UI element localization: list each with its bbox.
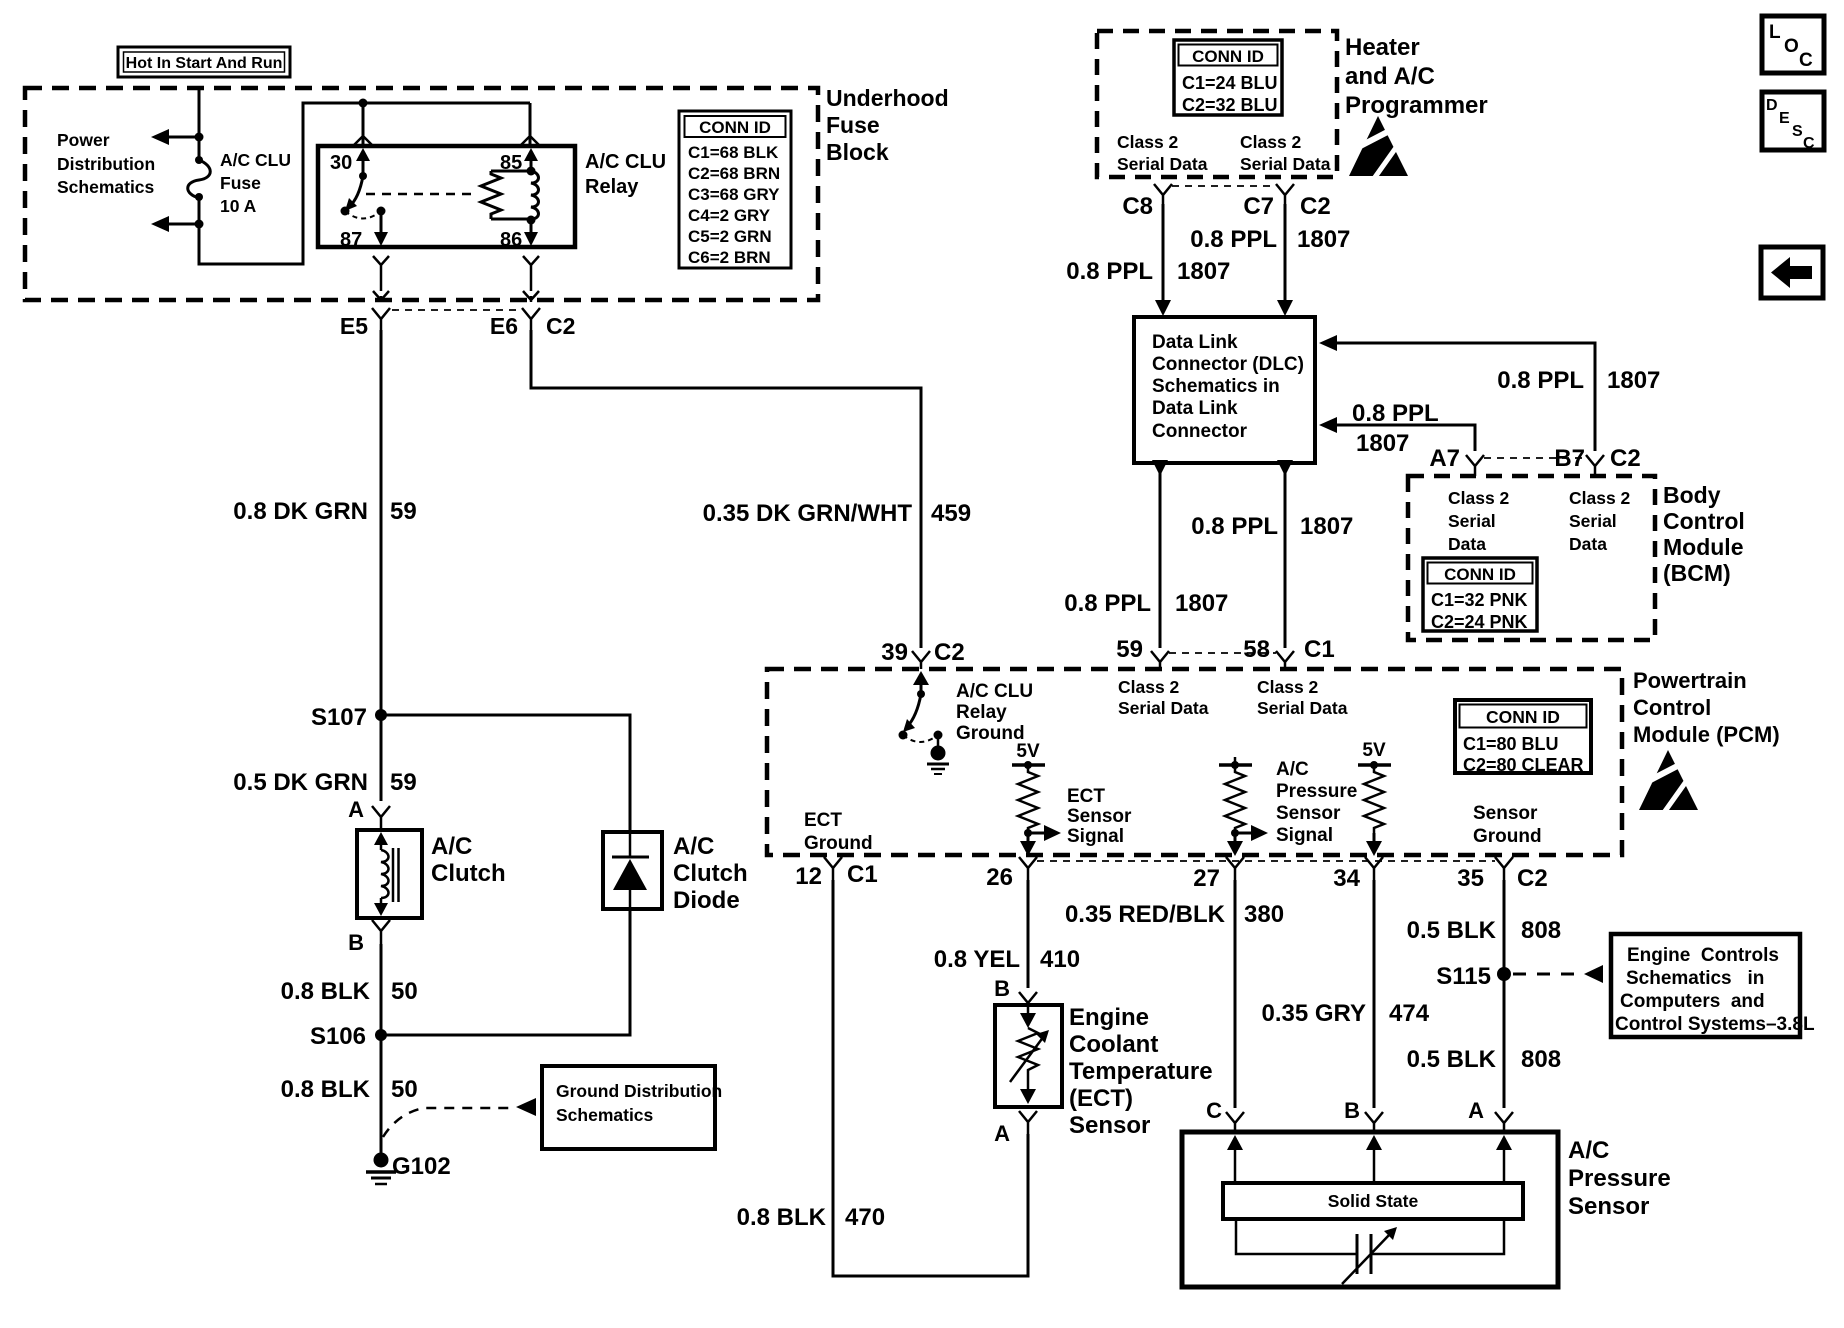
svg-text:A: A	[1468, 1098, 1484, 1123]
label: Heater and A/C Programmer	[1345, 34, 1488, 119]
svg-text:S115: S115	[1436, 963, 1491, 990]
svg-text:380: 380	[1244, 901, 1284, 928]
connector fork pin 39 C2 at PCM	[881, 639, 964, 669]
svg-text:Sensor: Sensor	[1067, 806, 1132, 827]
label: A/C Pressure Sensor Signal	[1276, 759, 1357, 846]
svg-text:C2=80 CLEAR: C2=80 CLEAR	[1463, 755, 1584, 775]
svg-text:Class 2: Class 2	[1569, 488, 1631, 508]
svg-text:Class 2: Class 2	[1257, 677, 1319, 697]
label: Hot In Start And Run	[118, 47, 290, 77]
label: ECT Sensor Signal	[1067, 786, 1132, 847]
wire: drop to relay pin 30	[362, 103, 365, 146]
connector A fork at pressure sensor	[1468, 1098, 1513, 1132]
wire: pin 85 entry arrow	[524, 148, 538, 171]
svg-text:59: 59	[390, 769, 417, 796]
wire: 0.5 BLK 808 S115 to pressure sensor A	[1407, 974, 1561, 1108]
label: Power Distribution Schematics	[57, 130, 155, 197]
svg-text:A/C: A/C	[1276, 759, 1309, 780]
svg-text:Connector (DLC): Connector (DLC)	[1152, 354, 1304, 375]
svg-text:470: 470	[845, 1204, 885, 1231]
wire: pressure signal exits PCM pin 27	[1227, 833, 1243, 856]
svg-text:50: 50	[391, 978, 418, 1005]
wire: pin 87 exit	[374, 211, 388, 246]
ECT sensor box	[995, 1005, 1062, 1107]
svg-text:Schematics in: Schematics in	[1626, 968, 1764, 989]
svg-text:Serial Data: Serial Data	[1257, 698, 1348, 718]
wire: 0.8 BLK 470 ECT sensor to PCM pin 12	[737, 880, 1028, 1276]
DESC corner icon	[1762, 92, 1824, 152]
dashed connector line 59-58	[1169, 652, 1276, 654]
node: fuse bottom junction	[195, 220, 204, 229]
svg-text:Data: Data	[1448, 534, 1486, 554]
svg-text:0.8 DK GRN: 0.8 DK GRN	[233, 498, 368, 525]
label: Class 2 Serial Data (PCM left)	[1118, 677, 1209, 718]
off-page arrow to Power Distribution Schematics (lower)	[151, 216, 199, 232]
Powertrain Control Module dashed box	[767, 669, 1622, 855]
label: A/C CLU Relay Ground	[956, 681, 1033, 744]
svg-text:CONN ID: CONN ID	[1192, 47, 1264, 66]
CONN ID table (programmer)	[1174, 40, 1282, 115]
svg-text:Ground Distribution: Ground Distribution	[556, 1081, 722, 1101]
svg-text:59: 59	[1116, 636, 1143, 663]
dashed reference wire to Ground Distribution Schematics	[383, 1098, 536, 1137]
svg-text:C2=68 BRN: C2=68 BRN	[688, 164, 780, 183]
CONN ID table (BCM)	[1423, 558, 1537, 632]
svg-text:808: 808	[1521, 1046, 1561, 1073]
svg-text:(ECT): (ECT)	[1069, 1085, 1133, 1112]
svg-text:Block: Block	[826, 139, 889, 165]
svg-text:5V: 5V	[1016, 741, 1040, 762]
svg-text:S: S	[1792, 123, 1803, 140]
sensor pin A entry arrow	[1496, 1135, 1512, 1183]
ESD sensitivity symbol (PCM)	[1635, 750, 1698, 814]
svg-text:C5=2 GRN: C5=2 GRN	[688, 227, 772, 246]
A/C Pressure Sensor box	[1182, 1132, 1558, 1287]
label: A/C CLU Fuse 10 A	[220, 150, 291, 216]
wire: 0.35 DK GRN/WHT 459 from E6 to PCM pin 39	[531, 330, 971, 648]
svg-text:ECT: ECT	[804, 810, 842, 831]
svg-text:Coolant: Coolant	[1069, 1031, 1158, 1058]
svg-text:CONN ID: CONN ID	[1444, 565, 1516, 584]
svg-text:10 A: 10 A	[220, 196, 257, 216]
svg-text:0.8 BLK: 0.8 BLK	[737, 1204, 827, 1231]
svg-text:Clutch: Clutch	[431, 860, 506, 887]
svg-text:58: 58	[1243, 636, 1270, 663]
label: A/C Clutch Diode	[673, 833, 748, 914]
pin 85 label	[500, 152, 522, 174]
svg-text:1807: 1807	[1607, 367, 1660, 394]
svg-text:Control Systems–3.8L: Control Systems–3.8L	[1615, 1014, 1815, 1035]
svg-text:A: A	[994, 1121, 1010, 1146]
wire: relay 87 fork down to connector E5	[373, 256, 389, 302]
svg-text:Data Link: Data Link	[1152, 398, 1238, 419]
svg-text:C1=32 PNK: C1=32 PNK	[1431, 590, 1528, 610]
wire: 0.8 PPL 1807 DLC to BCM A7	[1319, 400, 1475, 457]
svg-text:Serial: Serial	[1569, 511, 1617, 531]
svg-text:C2: C2	[546, 313, 575, 339]
svg-text:0.35 DK GRN/WHT: 0.35 DK GRN/WHT	[703, 500, 913, 527]
svg-text:Pressure: Pressure	[1276, 781, 1357, 802]
CONN ID table (underhood fuse block)	[679, 111, 791, 268]
svg-text:and A/C: and A/C	[1345, 63, 1435, 90]
svg-text:1807: 1807	[1300, 513, 1353, 540]
wire: drop to relay pin 85	[529, 103, 532, 146]
label: Class 2 Serial Data (PCM right)	[1257, 677, 1348, 718]
connector fork pin 35 C2	[1457, 857, 1547, 892]
svg-text:0.8 BLK: 0.8 BLK	[281, 1076, 371, 1103]
svg-text:C2: C2	[1610, 445, 1641, 472]
svg-text:C: C	[1799, 50, 1813, 71]
wire: 0.8 PPL 1807 DLC to PCM pin 58	[1191, 460, 1353, 648]
svg-text:C2: C2	[1300, 193, 1331, 220]
ground G102	[366, 1153, 451, 1185]
svg-text:C2: C2	[934, 639, 965, 666]
node + arrow: ECT Sensor Signal	[1024, 825, 1061, 841]
svg-text:Sensor: Sensor	[1568, 1193, 1649, 1220]
label: ECT Ground	[804, 810, 873, 854]
connector fork pin 59 at PCM	[1116, 636, 1169, 669]
dashed throw arc to ground contact	[903, 735, 938, 742]
svg-text:Relay: Relay	[585, 176, 639, 198]
svg-text:G102: G102	[392, 1153, 451, 1180]
svg-text:39: 39	[881, 639, 908, 666]
connector fork pin 26	[986, 857, 1037, 891]
svg-text:1807: 1807	[1297, 226, 1350, 253]
svg-text:Solid State: Solid State	[1328, 1191, 1419, 1211]
svg-text:Power: Power	[57, 130, 110, 150]
svg-text:S106: S106	[310, 1023, 366, 1050]
underhood fuse block dashed boundary	[25, 85, 949, 300]
pin 86 label	[500, 229, 522, 251]
svg-text:E6: E6	[490, 313, 518, 339]
5V supply for ECT sensor	[1012, 741, 1045, 769]
svg-text:Clutch: Clutch	[673, 860, 748, 887]
svg-text:Engine Controls: Engine Controls	[1627, 945, 1779, 966]
svg-text:50: 50	[391, 1076, 418, 1103]
connector A fork below ECT sensor	[994, 1111, 1037, 1146]
wire: S106 branch to clutch diode	[381, 909, 630, 1035]
connector C fork at pressure sensor	[1206, 1098, 1244, 1132]
svg-text:A7: A7	[1429, 445, 1460, 472]
label: Powertrain Control Module (PCM)	[1633, 668, 1780, 747]
svg-text:Fuse: Fuse	[220, 173, 261, 193]
svg-text:Class 2: Class 2	[1118, 677, 1180, 697]
A/C clutch coil symbol	[374, 832, 399, 916]
svg-text:0.8 PPL: 0.8 PPL	[1497, 367, 1584, 394]
svg-text:1807: 1807	[1356, 430, 1409, 457]
connector B7 C2 fork at BCM	[1554, 445, 1640, 476]
svg-text:(BCM): (BCM)	[1663, 560, 1731, 586]
svg-text:A/C: A/C	[431, 833, 472, 860]
svg-text:0.8 BLK: 0.8 BLK	[281, 978, 371, 1005]
wire: 0.8 PPL 1807 C8 to DLC	[1066, 204, 1230, 316]
svg-text:Computers and: Computers and	[1620, 991, 1765, 1012]
wire: 0.8 YEL 410 pin 26 to ECT sensor	[934, 880, 1080, 988]
connector B fork below clutch	[348, 920, 390, 955]
svg-text:0.8 PPL: 0.8 PPL	[1064, 590, 1151, 617]
svg-text:474: 474	[1389, 1000, 1430, 1027]
label: A/C CLU Relay	[585, 151, 666, 198]
svg-text:0.8 PPL: 0.8 PPL	[1190, 226, 1277, 253]
variable capacitor element	[1236, 1219, 1504, 1284]
node S107	[311, 704, 387, 731]
Heater and A/C Programmer dashed box	[1097, 31, 1337, 177]
svg-text:86: 86	[500, 229, 522, 251]
svg-text:A/C CLU: A/C CLU	[585, 151, 666, 173]
svg-text:35: 35	[1457, 865, 1484, 892]
sensor pin B entry arrow	[1366, 1135, 1382, 1183]
wire: 0.35 RED/BLK 380 pin 27 to pressure sensor C	[1065, 880, 1284, 1108]
svg-text:Pressure: Pressure	[1568, 1165, 1671, 1192]
svg-text:L: L	[1769, 22, 1781, 43]
connector E5 (C2) fork	[340, 308, 390, 339]
svg-text:D: D	[1766, 97, 1778, 114]
svg-text:ECT: ECT	[1067, 786, 1105, 807]
svg-text:Control: Control	[1633, 695, 1711, 720]
svg-text:87: 87	[340, 229, 362, 251]
pin 87 label	[340, 229, 362, 251]
svg-text:34: 34	[1333, 865, 1360, 892]
connector A fork at A/C clutch	[348, 797, 390, 830]
svg-text:0.8 YEL: 0.8 YEL	[934, 946, 1020, 973]
svg-text:Data Link: Data Link	[1152, 332, 1238, 353]
node S106	[310, 1023, 387, 1050]
wire: 0.5 DK GRN 59 from S107 to clutch	[233, 715, 416, 801]
svg-text:Serial Data: Serial Data	[1117, 154, 1208, 174]
svg-text:C1: C1	[847, 861, 878, 888]
label: A/C Clutch	[431, 833, 506, 887]
svg-text:C7: C7	[1243, 193, 1274, 220]
svg-text:Control: Control	[1663, 508, 1745, 534]
svg-text:Schematics: Schematics	[556, 1105, 654, 1125]
svg-text:0.5 DK GRN: 0.5 DK GRN	[233, 769, 368, 796]
dashed reference wire to Engine Controls Schematics	[1513, 965, 1603, 983]
svg-text:Sensor: Sensor	[1069, 1112, 1150, 1139]
connector B fork at ECT sensor	[994, 976, 1037, 1005]
node: fuse top junction	[195, 133, 204, 142]
svg-text:C: C	[1803, 135, 1815, 152]
svg-text:Ground: Ground	[804, 833, 873, 854]
svg-text:Heater: Heater	[1345, 34, 1420, 61]
dashed connector line E5-E6	[392, 309, 520, 311]
svg-text:Diode: Diode	[673, 887, 740, 914]
svg-text:0.8 PPL: 0.8 PPL	[1352, 400, 1439, 427]
relay coil top/bottom bars	[491, 167, 536, 225]
svg-text:Fuse: Fuse	[826, 112, 880, 138]
svg-text:C2=32 BLU: C2=32 BLU	[1182, 95, 1278, 115]
label: A/C Pressure Sensor	[1568, 1137, 1671, 1220]
svg-text:Ground: Ground	[956, 723, 1025, 744]
svg-text:Sensor: Sensor	[1473, 803, 1538, 824]
svg-text:A/C: A/C	[673, 833, 714, 860]
svg-text:27: 27	[1193, 865, 1220, 892]
svg-text:Class 2: Class 2	[1448, 488, 1510, 508]
resistor: A/C pressure signal pull-up with 5V bar	[1219, 757, 1252, 833]
dashed connector line A7-B7	[1484, 457, 1586, 459]
wire: 0.8 DK GRN 59 from E5 to S107	[233, 330, 416, 715]
svg-text:59: 59	[390, 498, 417, 525]
dashed connector line pins 26-35 (C2)	[1037, 860, 1495, 862]
svg-text:0.35 RED/BLK: 0.35 RED/BLK	[1065, 901, 1226, 928]
wire: 0.8 PPL 1807 C7 to DLC	[1190, 204, 1350, 316]
svg-text:0.35 GRY: 0.35 GRY	[1262, 1000, 1367, 1027]
svg-text:C1=80 BLU: C1=80 BLU	[1463, 734, 1559, 754]
svg-text:Ground: Ground	[1473, 826, 1542, 847]
PCM internal driver switch for A/C CLU relay ground	[899, 671, 930, 740]
svg-text:C4=2 GRY: C4=2 GRY	[688, 206, 771, 225]
label: Class 2 Serial Data (programmer right)	[1240, 132, 1331, 174]
svg-text:459: 459	[931, 500, 971, 527]
relay contact dashed throw arc	[345, 211, 381, 219]
connector E6 (C2) fork	[490, 308, 576, 339]
node: junction feeding pin 30	[359, 99, 368, 108]
connector B fork at pressure sensor	[1344, 1098, 1383, 1132]
svg-text:Class 2: Class 2	[1240, 132, 1302, 152]
svg-text:B: B	[994, 976, 1010, 1001]
svg-text:Data: Data	[1569, 534, 1607, 554]
A/C clutch box	[357, 830, 422, 918]
connector chevron above pin 30	[354, 136, 372, 145]
svg-text:Module: Module	[1663, 534, 1744, 560]
label: Class 2 Serial Data (BCM right)	[1569, 488, 1631, 554]
svg-text:C1=24 BLU: C1=24 BLU	[1182, 73, 1278, 93]
svg-text:0.8 PPL: 0.8 PPL	[1191, 513, 1278, 540]
svg-text:0.5 BLK: 0.5 BLK	[1407, 917, 1497, 944]
Ground Distribution Schematics box	[542, 1066, 722, 1149]
connector C8 fork	[1122, 184, 1172, 220]
svg-text:E: E	[1779, 110, 1790, 127]
svg-text:0.5 BLK: 0.5 BLK	[1407, 1046, 1497, 1073]
svg-text:Powertrain: Powertrain	[1633, 668, 1747, 693]
svg-text:Schematics in: Schematics in	[1152, 376, 1280, 397]
svg-text:Signal: Signal	[1067, 826, 1124, 847]
svg-text:Schematics: Schematics	[57, 177, 155, 197]
svg-text:Serial Data: Serial Data	[1118, 698, 1209, 718]
node S115	[1436, 963, 1511, 990]
svg-text:Module (PCM): Module (PCM)	[1633, 722, 1780, 747]
relay K1 box: A/C CLU Relay	[318, 146, 575, 247]
wire: ECT signal exits PCM pin 26	[1020, 833, 1036, 856]
wire: 0.8 BLK 50 clutch to S106	[281, 944, 418, 1035]
wire: feed from hot bus into fuse	[198, 88, 201, 137]
node: pin 87 contact	[377, 207, 386, 216]
relay coil: winding element	[531, 171, 539, 219]
svg-text:B: B	[1344, 1098, 1360, 1123]
svg-text:C6=2 BRN: C6=2 BRN	[688, 248, 771, 267]
label: Class 2 Serial Data (programmer left)	[1117, 132, 1208, 174]
label: Engine Coolant Temperature (ECT) Sensor	[1069, 1004, 1213, 1139]
svg-text:Sensor: Sensor	[1276, 803, 1341, 824]
5V supply reference	[1358, 740, 1391, 769]
off-page arrow to Power Distribution Schematics (upper)	[151, 129, 199, 145]
relay coil: resistor element	[481, 171, 501, 219]
wire: pin 86 exit	[524, 220, 538, 246]
node + arrow: A/C Pressure Sensor Signal	[1231, 825, 1268, 841]
svg-text:Serial Data: Serial Data	[1240, 154, 1331, 174]
label: Sensor Ground	[1473, 803, 1542, 847]
svg-text:Hot In Start And Run: Hot In Start And Run	[126, 55, 283, 72]
svg-text:Distribution: Distribution	[57, 154, 155, 174]
connector fork pin 58 C1 at PCM	[1243, 636, 1334, 669]
wire: 0.35 GRY 474 pin 34 to pressure sensor B	[1262, 880, 1430, 1108]
dashed connector line C8-C7	[1172, 185, 1276, 187]
pin 30 label	[330, 152, 352, 174]
wire: 0.8 BLK 50 S106 to G102	[281, 1035, 418, 1155]
A/C clutch diode box	[603, 832, 662, 909]
connector fork pin 34	[1333, 857, 1383, 892]
svg-text:A/C CLU: A/C CLU	[220, 150, 291, 170]
svg-text:CONN ID: CONN ID	[1486, 707, 1560, 727]
svg-text:1807: 1807	[1175, 590, 1228, 617]
label: Class 2 Serial Data (BCM left)	[1448, 488, 1510, 554]
svg-text:C: C	[1206, 1098, 1222, 1123]
LOC corner icon	[1762, 16, 1824, 73]
svg-text:Relay: Relay	[956, 702, 1007, 723]
Body Control Module dashed box	[1408, 476, 1655, 640]
svg-text:1807: 1807	[1177, 258, 1230, 285]
svg-text:5V: 5V	[1362, 740, 1386, 761]
connector fork pin 12 C1	[795, 857, 877, 890]
svg-text:O: O	[1784, 36, 1799, 57]
svg-text:30: 30	[330, 152, 352, 174]
svg-text:0.8 PPL: 0.8 PPL	[1066, 258, 1153, 285]
svg-text:410: 410	[1040, 946, 1080, 973]
wire: fuse output routed to relay pins 30 and 85	[199, 103, 530, 264]
svg-text:C2: C2	[1517, 865, 1548, 892]
wire: 5V reference exits PCM pin 34	[1366, 833, 1382, 856]
svg-text:A/C CLU: A/C CLU	[956, 681, 1033, 702]
relay mechanical link (dashed)	[366, 193, 474, 196]
svg-text:B: B	[348, 930, 364, 955]
connector chevron above pin 85	[521, 136, 539, 145]
wire: 0.8 PPL 1807 DLC to BCM B7	[1319, 335, 1660, 451]
connector fork pin 27	[1193, 857, 1244, 892]
Data Link Connector reference box	[1134, 317, 1315, 463]
svg-text:Underhood: Underhood	[826, 85, 949, 111]
Solid State block	[1223, 1183, 1523, 1219]
sensor pin C entry arrow	[1227, 1135, 1243, 1183]
svg-text:Connector: Connector	[1152, 421, 1248, 442]
svg-text:808: 808	[1521, 917, 1561, 944]
svg-text:CONN ID: CONN ID	[699, 118, 771, 137]
ECT thermistor symbol	[1010, 1005, 1049, 1104]
svg-text:Engine: Engine	[1069, 1004, 1149, 1031]
ESD sensitivity symbol (programmer)	[1345, 116, 1408, 180]
svg-text:Class 2: Class 2	[1117, 132, 1179, 152]
fuse F1: A/C CLU Fuse 10 A	[188, 137, 211, 224]
svg-text:C1=68 BLK: C1=68 BLK	[688, 143, 779, 162]
svg-text:C1: C1	[1304, 636, 1335, 663]
relay switch arm (pin 30 to pin 87)	[341, 148, 371, 216]
wire: relay 86 fork down to connector E6	[523, 256, 539, 302]
diode D1 symbol	[612, 832, 649, 909]
resistor: ECT pull-up	[1018, 765, 1038, 833]
svg-text:Programmer: Programmer	[1345, 92, 1488, 119]
svg-text:E5: E5	[340, 313, 368, 339]
PCM internal ground	[927, 731, 949, 775]
svg-text:Signal: Signal	[1276, 825, 1333, 846]
svg-text:Body: Body	[1663, 482, 1721, 508]
connector C7 C2 fork	[1243, 184, 1330, 220]
Engine Controls Schematics box	[1611, 934, 1815, 1037]
connector A7 fork at BCM	[1429, 445, 1484, 476]
svg-text:C3=68 GRY: C3=68 GRY	[688, 185, 780, 204]
svg-text:26: 26	[986, 864, 1013, 891]
svg-text:Temperature: Temperature	[1069, 1058, 1213, 1085]
label: Body Control Module (BCM)	[1663, 482, 1745, 586]
svg-text:A/C: A/C	[1568, 1137, 1609, 1164]
wire: S107 branch to clutch diode	[381, 715, 630, 832]
